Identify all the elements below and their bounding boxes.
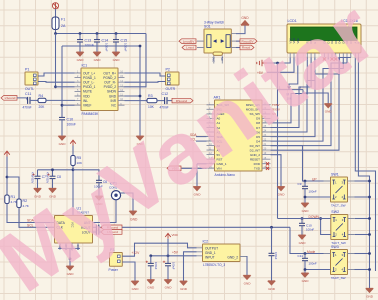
junction VDD arrow [167, 254, 170, 257]
wire LCD col 311.1 to MCU row 127.5 [271, 58, 312, 128]
wire U1 pins to ground [69, 248, 71, 266]
capacitor C15 [113, 40, 119, 42]
svg-text:NC: NC [111, 104, 116, 108]
svg-text:VDD: VDD [172, 233, 179, 237]
svg-text:UP: UP [312, 178, 317, 182]
wire C11 to ground [304, 261, 306, 273]
svg-text:INR: INR [111, 99, 117, 103]
no-connect X on LCD data pin [330, 57, 333, 60]
wire LCD K col to ground rail [358, 58, 369, 289]
wire GND_1 [197, 163, 207, 165]
svg-text:VDD: VDD [83, 94, 90, 98]
MCU AR1 Arduino-Nano body [215, 100, 263, 171]
port RSound (from U1) [101, 225, 122, 230]
svg-text:INL: INL [83, 99, 88, 103]
svg-text:SW3: SW3 [331, 245, 339, 249]
capacitor LOUT coupling [96, 229, 98, 235]
wire C18 to ground [271, 256, 273, 281]
capacitor C18 [269, 253, 275, 255]
wire SW2 pin3 to rail [355, 218, 370, 220]
wire LCD A col to outer rail [355, 58, 375, 272]
svg-text:100nF: 100nF [124, 43, 128, 52]
SO1 contacts [207, 35, 230, 48]
wire D3_INT to SW1 (UP) [271, 146, 331, 181]
wire CP1 shield to ground [121, 193, 133, 211]
svg-text:TXD: TXD [254, 167, 261, 171]
wire branch to R2 [7, 177, 19, 199]
junction SW2 strap [319, 217, 322, 220]
svg-text:47uF/25V: 47uF/25V [46, 172, 50, 184]
wire rail to C8 [52, 170, 54, 176]
svg-text:2A: 2A [61, 24, 66, 28]
wire P2 pin1 to OUT_R+ [125, 73, 166, 76]
power port VCC (circle style) [52, 3, 58, 9]
power port VDD arrow [165, 233, 171, 238]
ground below C16 [147, 280, 154, 284]
svg-text:47uF/25V: 47uF/25V [31, 172, 35, 184]
wire SW3 pin4 to rail [355, 269, 370, 271]
wire SCL stub [196, 140, 207, 142]
wire P3 +12V to regulator input [122, 243, 196, 256]
wire C17 to ground [167, 266, 169, 280]
svg-text:100uF: 100uF [154, 262, 158, 270]
switch SO1 3-Way-Switch body [204, 29, 231, 53]
ground below regulator GND_2 [243, 275, 250, 279]
wire C10 to ground [61, 120, 63, 136]
wire P3 pin2 to ground [122, 262, 135, 281]
wire C6 to ground [98, 183, 100, 196]
wire P2 pin2 to OUT_R- [125, 81, 166, 84]
svg-text:100uF: 100uF [171, 262, 175, 270]
junction C11 (SW3) [304, 252, 307, 255]
resistor R4 [38, 98, 46, 102]
svg-text:INPUT: INPUT [205, 255, 215, 259]
svg-text:R1: R1 [11, 195, 16, 199]
port RSound [172, 98, 193, 103]
IC1 pins and pin labels [75, 73, 125, 105]
svg-text:GND: GND [113, 58, 121, 62]
svg-text:GND: GND [132, 287, 140, 291]
wire LCD col 347 to MCU row 145.6 [271, 58, 348, 146]
LCD pin stubs [290, 53, 358, 58]
SO1 bottom pins [214, 55, 223, 63]
wire SW1 pin3 to rail [355, 180, 370, 182]
wire SO1 Rmod5V [236, 40, 240, 42]
junction U1 ground wire [69, 257, 72, 260]
wire VCC rail down to PVDD_2 pin [124, 34, 147, 87]
svg-text:GND: GND [268, 287, 276, 291]
svg-text:GND: GND [77, 58, 85, 62]
svg-text:C7: C7 [42, 175, 46, 179]
capacitor C11 [28, 97, 30, 104]
no-connect X on LCD data pin [334, 57, 337, 60]
wire LCD col 307.3 to MCU row 122.9 [271, 58, 308, 123]
svg-text:C14: C14 [102, 39, 109, 43]
junction SW2 pin4 rail [368, 233, 371, 236]
switch SW2 TACT_SW [331, 215, 348, 240]
wire LOUT to cap [93, 231, 97, 233]
ground below C8 [49, 188, 56, 192]
wire C10 to ground [301, 226, 303, 235]
wire rail to C14 [96, 34, 98, 40]
junction SW3 pin2 / C11 gnd [304, 268, 307, 271]
svg-text:GND: GND [366, 294, 374, 298]
svg-text:MUTE: MUTE [83, 90, 92, 94]
capacitor C13 [77, 40, 83, 42]
junction R1/R2 branch [6, 176, 9, 179]
svg-text:OUT_L-: OUT_L- [83, 81, 94, 85]
wire LSound to C11 [17, 98, 28, 101]
svg-text:Lmod: Lmod [186, 46, 194, 50]
ground below C10 [58, 136, 65, 140]
capacitor C14 [94, 40, 100, 42]
svg-text:IC1: IC1 [82, 64, 88, 68]
wire VCC down [6, 157, 8, 196]
svg-text:100nF: 100nF [105, 43, 109, 52]
svg-text:GND_1: GND_1 [205, 251, 216, 255]
wire regulator GND_1 to ground [184, 252, 197, 281]
fuse F1 [52, 17, 59, 30]
ground below C13 [76, 52, 83, 56]
capacitor ROUT coupling [96, 225, 98, 231]
ground below C7 [34, 188, 41, 192]
wire filter rail [38, 169, 74, 171]
wire VSS feed down to SW2 [277, 63, 279, 219]
junction VREF [61, 104, 64, 107]
svg-text:C12: C12 [162, 92, 169, 96]
wire LCD VEE to pot wiper [289, 58, 298, 90]
wire R4 to INL [46, 99, 75, 101]
svg-text:GND: GND [299, 241, 307, 245]
signal ground symbol (bars) [257, 60, 267, 66]
svg-text:L7805CV-TO_3: L7805CV-TO_3 [203, 263, 225, 267]
svg-text:20K: 20K [39, 105, 46, 109]
svg-text:LSound: LSound [5, 96, 16, 100]
ground below C6 [95, 196, 102, 200]
svg-text:OUTL: OUTL [25, 87, 34, 91]
ground below C11 [301, 273, 308, 277]
wire P1 pin1 to OUT_L+ [38, 73, 75, 76]
svg-text:Mode: Mode [307, 250, 315, 254]
ground below P3 [131, 281, 138, 285]
svg-text:5VC: 5VC [212, 57, 216, 62]
capacitor C6 [96, 180, 102, 182]
svg-text:PVDD_2: PVDD_2 [104, 85, 117, 89]
ground below regulator GND_1 [180, 281, 187, 285]
svg-text:Lmod5V: Lmod5V [183, 39, 195, 43]
wire VCC to fuse F1 [55, 9, 57, 17]
wire VIN [182, 167, 207, 169]
svg-text:GND: GND [244, 281, 252, 285]
wire LCD col 314.9 to MCU row 132.0 [271, 58, 315, 133]
wire ANT to connector CP1 [93, 200, 117, 223]
wire R3 to C12 [157, 100, 165, 102]
wire cap to port [99, 226, 101, 228]
svg-text:GND: GND [302, 209, 310, 213]
svg-text:+12V: +12V [132, 251, 141, 255]
svg-text:GND: GND [325, 110, 333, 114]
svg-text:100nF: 100nF [306, 228, 314, 232]
wire C12 to port RSound [167, 100, 172, 102]
switch SW1 TACT_SW [331, 177, 348, 202]
wire LCD D1 stub [327, 58, 329, 60]
wire down to C18 [271, 227, 273, 253]
wire fuse to VCC rail [55, 30, 57, 34]
wire U1 bottom pins common [58, 247, 80, 249]
no-connect X on LCD data pin [323, 57, 326, 60]
wire SW2 pin2 strap [321, 219, 331, 235]
svg-text:TACT_SW: TACT_SW [331, 276, 346, 280]
svg-text:R3: R3 [148, 94, 153, 98]
wire LCD col 343.3 to MCU row 141.1 [271, 58, 344, 142]
svg-text:GND: GND [147, 286, 155, 290]
wire GND_1 down [196, 164, 198, 187]
wire GND_2 down [271, 155, 282, 187]
wire pot track [278, 89, 304, 91]
svg-text:10K: 10K [148, 105, 155, 109]
svg-text:GND: GND [94, 58, 102, 62]
wire LCD col 350.8 to MCU row 150.2 [271, 58, 351, 151]
svg-text:PGND_2: PGND_2 [103, 76, 116, 80]
svg-text:100nF: 100nF [67, 123, 76, 127]
wire rail to C16 [150, 256, 152, 264]
no-connect X RXD [266, 162, 269, 165]
wire SW3 pin2 [305, 269, 331, 271]
svg-text:SW2: SW2 [331, 210, 339, 214]
svg-text:F1: F1 [61, 18, 65, 22]
capacitor C10 [59, 117, 65, 119]
wire RSound long run [122, 226, 290, 228]
svg-text:OUT_L+: OUT_L+ [83, 71, 95, 75]
svg-text:NC: NC [220, 57, 224, 61]
wire P1 pin2 to OUT_L- [38, 81, 75, 84]
port LSound [1, 96, 17, 101]
ground below C18 [268, 281, 275, 285]
wire loop left down to C10 [61, 46, 63, 117]
junction C14 [96, 32, 99, 35]
svg-text:PGND_1: PGND_1 [83, 76, 96, 80]
svg-text:P1: P1 [25, 68, 29, 72]
wire loop top [62, 45, 140, 47]
svg-text:VREF: VREF [83, 104, 92, 108]
svg-text:100nF: 100nF [309, 190, 317, 194]
connector P3 Power [110, 253, 123, 267]
regulator IC2 L7805 body [203, 244, 241, 262]
wire VDD arrow to rail [167, 239, 169, 256]
port Lmod [182, 45, 196, 50]
svg-text:GND: GND [278, 193, 286, 197]
capacitor C11 (SW3) [302, 258, 308, 260]
svg-text:C9: C9 [298, 182, 302, 186]
wire SO1 Rmod [236, 47, 240, 49]
svg-text:SO1: SO1 [204, 25, 211, 29]
wire LCD VSS left [267, 58, 290, 64]
wire loop right down to ground [139, 46, 141, 136]
junction SW3 pin3 rail [368, 252, 371, 255]
svg-text:OUTR: OUTR [166, 87, 176, 91]
wire RSound run to SW3 (Mode) [290, 227, 331, 253]
op-amp IC1 PAM8403 body [81, 68, 118, 111]
svg-text:+5V: +5V [172, 251, 179, 255]
wire C8 to ground [52, 179, 54, 189]
svg-text:GND: GND [59, 142, 67, 146]
svg-text:PAM8403K: PAM8403K [82, 112, 100, 116]
wire SDA stub [196, 136, 207, 138]
wire branch to C6 [73, 170, 99, 181]
resistor R5 [71, 156, 75, 166]
svg-text:P2: P2 [166, 68, 170, 72]
junction C9 [304, 180, 307, 183]
svg-text:C13: C13 [85, 39, 92, 43]
port Rmod5V [240, 39, 257, 44]
capacitor C10 (SW2) [299, 223, 305, 225]
port Rmod [240, 45, 254, 50]
ground below C10 [298, 235, 305, 239]
wire SW3 pin3 to rail [355, 253, 370, 255]
svg-text:GND: GND [109, 94, 117, 98]
ground below C17 [164, 280, 171, 284]
wire SW2 pin4 to rail [355, 234, 370, 236]
svg-text:TACT_SW: TACT_SW [331, 204, 346, 208]
ground below CP1 [129, 211, 136, 215]
wire SO1 to ground above [236, 25, 245, 33]
junction VSS / down feed [276, 62, 279, 65]
wire SW1 pin2 [305, 196, 331, 198]
connector P1 [25, 72, 38, 85]
wire rail to C13 [79, 34, 81, 40]
junction C10 (SW2) [301, 217, 304, 220]
wire C15 to ground [115, 42, 117, 52]
svg-text:OUT_R-: OUT_R- [104, 81, 116, 85]
junction RSound run / C18 [270, 226, 273, 229]
wire PAM GND pin to loop [124, 95, 141, 97]
svg-text:RXD: RXD [254, 162, 261, 166]
wire C16 to ground [150, 266, 152, 280]
junction C15 [115, 32, 118, 35]
port VDD at VIN [167, 166, 181, 171]
svg-text:OUTPUT: OUTPUT [205, 246, 218, 250]
junction SW1 pin3 rail [368, 180, 371, 183]
wire C11 to R4 [30, 99, 38, 101]
ground bottom right [366, 288, 373, 292]
ground below MCU left [193, 187, 200, 191]
wire rail to C15 [115, 34, 117, 40]
wire VCC rail y=33.5 [56, 33, 147, 35]
svg-text:R5: R5 [77, 156, 82, 160]
wire ROUT to cap [93, 226, 97, 228]
switch SW3 TACT_SW [331, 250, 348, 275]
wire to C9 [304, 181, 306, 186]
ground below U1 [66, 266, 73, 270]
ground below LCD [325, 104, 332, 108]
capacitor C8 electrolytic [50, 176, 56, 178]
capacitor C12 [165, 97, 167, 104]
junction C13 [79, 32, 82, 35]
junction SW1 pin4 rail [368, 196, 371, 199]
resistor R2 [17, 199, 21, 208]
svg-text:GND: GND [241, 16, 249, 20]
ground below C14 [93, 52, 100, 56]
capacitor C16 electrolytic [148, 263, 154, 265]
power port VCC arrow above R5 [70, 140, 76, 145]
capacitor C7 electrolytic [35, 176, 41, 178]
wire C13 to ground [79, 42, 81, 52]
wire R1 to DATA (SDA) [7, 204, 55, 223]
wire cap to port [99, 231, 101, 233]
junction C16 [149, 254, 152, 257]
wire VREF pin [62, 104, 75, 106]
wire C7 to ground [37, 179, 39, 189]
wire C14 to ground [96, 42, 98, 52]
port LSound (from U1) [101, 230, 122, 235]
svg-text:C11: C11 [298, 254, 304, 258]
junction SW1 pin2 / C9 gnd [304, 196, 307, 199]
svg-text:GND: GND [180, 287, 188, 291]
junction rail / R5 [72, 168, 75, 171]
port Lmod5V [179, 39, 196, 44]
wire VCC to R5 [72, 146, 74, 156]
svg-text:R4: R4 [39, 94, 44, 98]
junction PVDD_1 [54, 85, 57, 88]
junction loop corner [139, 45, 142, 48]
resistor R3 [147, 98, 157, 102]
wire SW1 pin4 to rail [355, 196, 370, 198]
junction GND pin / loop [139, 95, 142, 98]
junction SW2 pin3 rail [368, 217, 371, 220]
svg-text:SHDN: SHDN [107, 90, 117, 94]
ground below PAM right loop [136, 136, 143, 140]
U1 bottom pins [60, 243, 78, 250]
svg-text:Power: Power [109, 268, 119, 272]
wire regulator GND_2 to ground [246, 257, 249, 276]
svg-text:SW1: SW1 [331, 173, 339, 177]
ground below MCU right [277, 187, 284, 191]
LCD1 module body [287, 24, 361, 53]
capacitor C9 [302, 186, 308, 188]
svg-text:OUT_R+: OUT_R+ [103, 71, 116, 75]
wire R5 down to U1 [72, 166, 74, 216]
no-connect X TXD [266, 167, 269, 170]
wire rail to C7 [37, 170, 39, 176]
ground below C15 [112, 52, 119, 56]
svg-text:GND_2: GND_2 [227, 255, 238, 259]
svg-text:C11: C11 [25, 92, 31, 96]
MCU pins and labels [207, 105, 271, 168]
wire VCC to PVDD_1 [55, 34, 57, 87]
svg-text:GND: GND [165, 286, 173, 290]
wire C9 to ground [304, 189, 306, 203]
svg-text:100uF: 100uF [274, 252, 278, 260]
junction VCC rail / fuse [54, 32, 57, 35]
wire rail to C17 [167, 256, 169, 264]
svg-text:470nF: 470nF [23, 106, 32, 110]
power port VCC arrow left [4, 151, 10, 156]
wire INR to R3 [125, 100, 148, 102]
junction C8 rail [51, 168, 54, 171]
wire DOWN to SW2 pin1 [278, 218, 331, 220]
ground above SO1 (flipped) [241, 21, 249, 26]
wire R2 to CLK (SCL) [19, 208, 55, 228]
capacitor C17 electrolytic [165, 263, 171, 265]
wire to C10 [301, 219, 303, 224]
svg-text:C15: C15 [121, 39, 128, 43]
connector P2 [166, 72, 180, 85]
svg-text:100nF: 100nF [309, 262, 317, 266]
ground below C9 [301, 203, 308, 207]
resistor R1 [5, 195, 9, 204]
LCD green screen [291, 27, 358, 41]
wire LCD col 339.5 to MCU row 136.6 [271, 58, 340, 137]
